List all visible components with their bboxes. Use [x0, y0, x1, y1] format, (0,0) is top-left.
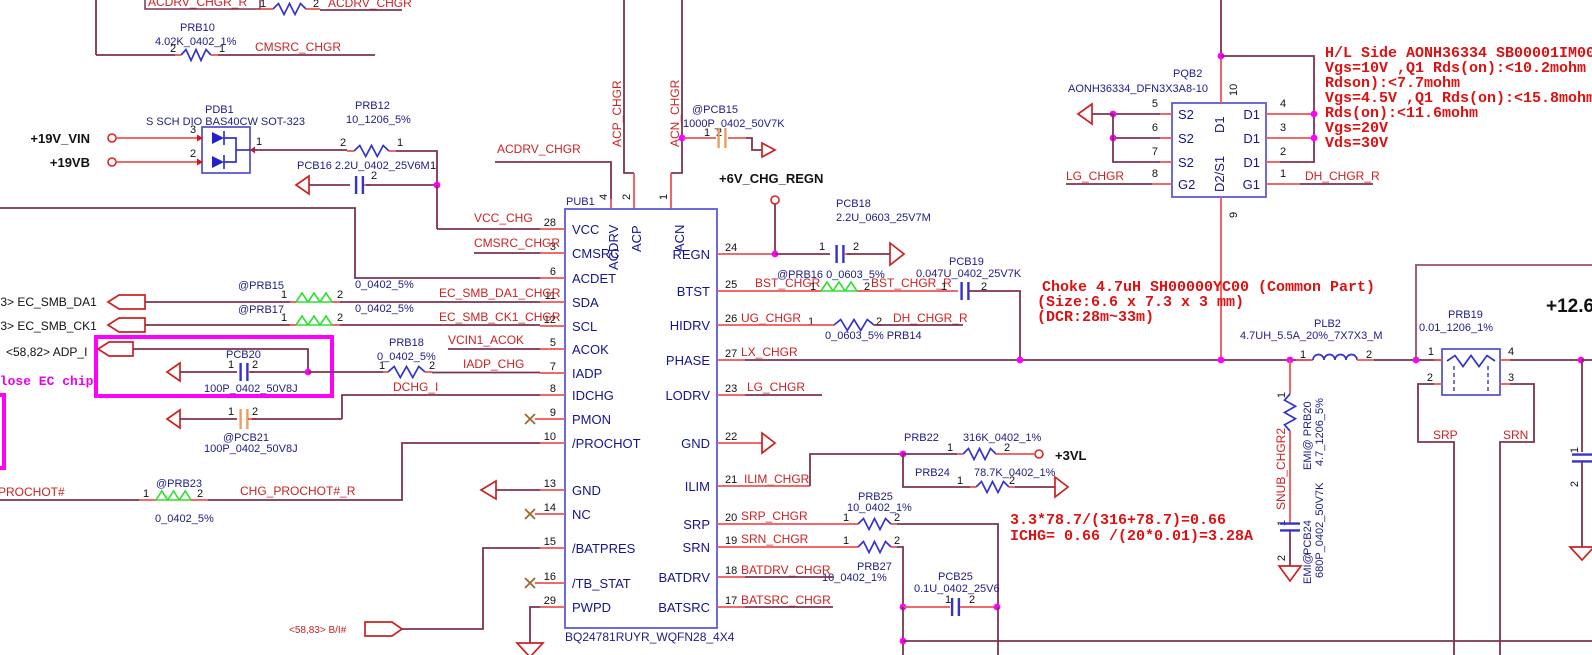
net arrow REGN out [890, 243, 904, 265]
resistor PRB12 pin 1 [397, 137, 403, 149]
svg-text:1: 1 [281, 289, 287, 301]
svg-text:ACN: ACN [672, 225, 687, 252]
connector circle +3VL [1035, 450, 1043, 458]
svg-text:DH_CHGR_R: DH_CHGR_R [893, 311, 968, 325]
svg-text:S2: S2 [1178, 155, 1194, 170]
no-connect X on /TB_STAT pin 16 [525, 578, 540, 588]
svg-text:close EC chip: close EC chip [0, 374, 94, 389]
capacitor PCB24 labels vertical [1302, 482, 1326, 584]
svg-text:PRB18: PRB18 [389, 337, 424, 349]
no-connect X on NC pin 14 [525, 509, 540, 519]
junction pin 4 node [1311, 111, 1318, 118]
wire PQB2 pin 4 [1266, 113, 1314, 115]
svg-text:2: 2 [252, 359, 258, 371]
chip PUB1 refdes [566, 196, 595, 208]
capacitor PCB20 [180, 363, 254, 381]
svg-text:GND: GND [572, 483, 601, 498]
svg-text:3: 3 [1280, 122, 1286, 134]
svg-text:PRB24: PRB24 [915, 467, 950, 479]
svg-text:BATDRV_CHGR: BATDRV_CHGR [741, 563, 831, 577]
net label CMSRC_CHGR [474, 236, 560, 250]
diode PDB1 pin 1 [256, 136, 262, 148]
wire HIDRV to PRB14 [717, 324, 834, 326]
capacitor PCB20 value [204, 383, 298, 395]
svg-text:1: 1 [843, 535, 849, 547]
resistor @PRB15 pins [281, 289, 343, 301]
wire drain top to pins 4/3/2 [1221, 56, 1314, 162]
svg-text:BQ24781RUYR_WQFN28_4X4: BQ24781RUYR_WQFN28_4X4 [565, 630, 735, 644]
svg-text:2: 2 [969, 594, 975, 606]
svg-text:SRN: SRN [683, 540, 710, 555]
inductor PLB2 pins [1300, 349, 1372, 361]
port EC_SMB_DA1 [0, 295, 145, 309]
resistor PRB10 labels [155, 22, 237, 48]
svg-text:PCB19: PCB19 [949, 256, 984, 268]
wire ILIM_CHGR [717, 454, 903, 486]
svg-text:SRP: SRP [1433, 428, 1458, 442]
chip PUB1 top pin names [606, 224, 687, 270]
svg-text:EC_SMB_CK1_CHGR: EC_SMB_CK1_CHGR [439, 310, 561, 324]
svg-text:23: 23 [725, 383, 737, 395]
resistor PRB24 labels [915, 467, 1056, 479]
resistor PRB12 [347, 146, 396, 157]
resistor PRB18 [383, 367, 432, 378]
svg-text:LX_CHGR: LX_CHGR [741, 345, 798, 359]
ground symbol snubber [1279, 566, 1301, 581]
resistor @PRB23 [139, 491, 208, 500]
svg-text:D1: D1 [1243, 107, 1260, 122]
wire PCB16 to junction [366, 184, 437, 186]
svg-text:9: 9 [550, 407, 556, 419]
wire arrow to PCB16 [309, 184, 350, 186]
svg-text:LG_CHGR: LG_CHGR [1066, 169, 1124, 183]
net label LX_CHGR [741, 345, 798, 359]
transistor PQB2 right pin names [1243, 107, 1260, 192]
capacitor output [1572, 455, 1592, 462]
net label ACN_CHGR vertical [668, 79, 682, 147]
capacitor @PCB21 pins [228, 406, 258, 418]
svg-text:PCB16 2.2U_0402_25V6M: PCB16 2.2U_0402_25V6M [297, 160, 430, 172]
svg-text:PRB19: PRB19 [1448, 309, 1483, 321]
net label PROCHOT# [0, 485, 65, 499]
svg-text:/TB_STAT: /TB_STAT [572, 576, 631, 591]
svg-text:7: 7 [550, 361, 556, 373]
wire ADP_I [133, 349, 308, 372]
highlight box close EC chip [96, 337, 332, 396]
resistor @PRB16 [815, 282, 863, 291]
svg-text:2: 2 [313, 0, 319, 10]
capacitor PCB25 labels [914, 571, 1000, 595]
resistor pin 2 [313, 0, 319, 10]
svg-text:22: 22 [725, 431, 737, 443]
wire rail to right edge [1581, 359, 1592, 361]
wire GND pin 13 [496, 489, 540, 491]
svg-text:18: 18 [725, 565, 737, 577]
capacitor PCB24 [1280, 524, 1300, 531]
junction SRP/PCB25 [994, 604, 1001, 611]
svg-text:PRB10: PRB10 [180, 22, 215, 34]
net label SRN_CHGR [741, 532, 809, 546]
svg-text:CMSRC_CHGR: CMSRC_CHGR [474, 236, 560, 250]
svg-text:3.3*78.7/(316+78.7)=0.66: 3.3*78.7/(316+78.7)=0.66 [1010, 512, 1226, 529]
wire PQB2 pin 10 top [1220, 0, 1222, 103]
resistor PRB22 pins [947, 442, 1010, 454]
svg-text:1: 1 [379, 360, 385, 372]
svg-text:6: 6 [1152, 122, 1158, 134]
svg-text:1: 1 [256, 136, 262, 148]
resistor PRB19 labels [1419, 309, 1493, 334]
transistor PQB2 right pin numbers [1280, 98, 1286, 180]
no-connect X on PMON pin 9 [525, 414, 540, 424]
svg-text:10_0402_1%: 10_0402_1% [822, 572, 887, 584]
transistor PQB2 body [1172, 103, 1266, 197]
junction pin 6 node [1110, 135, 1117, 142]
transistor PQB2 pin 9 number [1228, 212, 1240, 218]
wire LODRV [717, 394, 822, 396]
capacitor PCB18 [837, 245, 851, 263]
svg-text:@PCB15: @PCB15 [692, 104, 738, 116]
svg-text:25: 25 [725, 279, 737, 291]
svg-text:ACP_CHGR: ACP_CHGR [610, 80, 624, 147]
svg-text:4: 4 [598, 194, 610, 200]
svg-text:/PROCHOT: /PROCHOT [572, 436, 641, 451]
net label SRP_CHGR [741, 509, 808, 523]
capacitor PCB16 [356, 176, 371, 194]
diode PDB1 labels [146, 104, 305, 128]
svg-text:@PRB16 0_0603_5%: @PRB16 0_0603_5% [777, 269, 885, 281]
wire ACP_CHGR [624, 0, 634, 209]
svg-text:17: 17 [725, 595, 737, 607]
svg-text:SRP: SRP [683, 517, 710, 532]
svg-text:DCHG_I: DCHG_I [393, 380, 438, 394]
resistor PRB27 pins [843, 535, 900, 547]
resistor PRB18 pins [379, 360, 435, 372]
wire PDB1 to PRB12 [250, 149, 347, 151]
svg-text:2: 2 [1276, 555, 1288, 561]
resistor PRB14 label [825, 330, 922, 342]
svg-text:0_0402_5%: 0_0402_5% [377, 351, 436, 363]
svg-text:PWPD: PWPD [572, 600, 611, 615]
capacitor output pin 2 [1569, 481, 1581, 487]
net arrow PCB20 left [167, 363, 180, 381]
svg-text:SCL: SCL [572, 319, 597, 334]
net label SRN (sense) [1503, 428, 1528, 442]
svg-text:680P_0402_50V7K: 680P_0402_50V7K [1314, 482, 1326, 578]
svg-text:6: 6 [550, 266, 556, 278]
resistor @PRB15 [145, 293, 340, 302]
svg-text:D2/S1: D2/S1 [1212, 156, 1227, 192]
resistor PRB20 labels vertical [1302, 398, 1326, 470]
svg-text:0.01_1206_1%: 0.01_1206_1% [1419, 322, 1493, 334]
junction PQB2 drain top [1218, 53, 1225, 60]
net arrow PCB21 left [167, 410, 180, 428]
annotation ICHG formula [1010, 512, 1253, 545]
resistor PRB10 pin 2 [170, 43, 176, 55]
resistor PRB27 [852, 542, 897, 553]
wire PRB24 to arrow [1015, 486, 1055, 488]
svg-text:ACP: ACP [629, 225, 644, 252]
svg-text:0.047U_0402_25V7K: 0.047U_0402_25V7K [916, 268, 1022, 280]
svg-text:@PRB23: @PRB23 [156, 478, 202, 490]
svg-text:2: 2 [876, 316, 882, 328]
svg-text:1: 1 [843, 512, 849, 524]
transistor PQB2 left pin names [1178, 107, 1195, 192]
diode PDB1 body [197, 127, 250, 173]
svg-text:S SCH DIO BAS40CW SOT-323: S SCH DIO BAS40CW SOT-323 [146, 116, 305, 128]
svg-text:PDB1: PDB1 [205, 104, 234, 116]
net label DH_CHGR_R (PQB2) [1305, 169, 1380, 183]
resistor (ACDRV_CHGR series) pin 1 [260, 0, 266, 10]
svg-text:UG_CHGR: UG_CHGR [741, 311, 801, 325]
net label CHG_PROCHOT#_R [240, 484, 356, 498]
capacitor @PCB15 labels [683, 104, 785, 130]
svg-text:S2: S2 [1178, 131, 1194, 146]
resistor PRB24 [970, 482, 1015, 493]
wire PCB19 to LX rail [969, 291, 1020, 360]
svg-text:BATDRV: BATDRV [658, 570, 710, 585]
svg-text:+12.6V: +12.6V [1546, 296, 1592, 317]
diode PDB1 pin 2 [190, 148, 196, 160]
transistor PQB2 refdes [1068, 68, 1208, 95]
resistor PRB18 labels [377, 337, 436, 363]
svg-text:PROCHOT#: PROCHOT# [0, 485, 65, 499]
svg-text:LODRV: LODRV [665, 388, 710, 403]
svg-text:14: 14 [544, 502, 556, 514]
resistor @PRB15 labels [238, 279, 414, 292]
svg-text:PUB1: PUB1 [566, 196, 595, 208]
svg-text:1: 1 [819, 241, 825, 253]
wire PCB21 to DCHG_I [252, 411, 342, 419]
net label ACP_CHGR vertical [610, 80, 624, 147]
svg-text:0_0402_5%: 0_0402_5% [155, 513, 214, 525]
inductor PLB2 labels [1240, 318, 1382, 342]
capacitor @PCB15 [684, 128, 746, 148]
wire CMSRC_CHGR top-left vertical [95, 0, 97, 55]
capacitor PCB25 [903, 598, 997, 616]
svg-text:1: 1 [808, 316, 814, 328]
wire PWPD to ground [530, 607, 540, 643]
svg-text:19: 19 [725, 535, 737, 547]
resistor (ACDRV_CHGR series) [260, 4, 320, 15]
svg-text:Vds=30V: Vds=30V [1325, 135, 1388, 152]
net arrow PQB2 source [1078, 104, 1092, 124]
svg-text:+3VL: +3VL [1055, 448, 1086, 463]
wire arrow to pin5 [1092, 113, 1113, 115]
wire output to cap [1581, 360, 1583, 452]
net label BATDRV_CHGR [741, 563, 831, 577]
svg-text:9: 9 [1228, 212, 1240, 218]
resistor PRB12 pin 2 [340, 137, 346, 149]
svg-text:0_0402_5%: 0_0402_5% [355, 279, 414, 291]
chip PUB1 left pin numbers [544, 217, 556, 607]
capacitor PCB16 pin 2 [371, 170, 377, 182]
net label UG_CHGR [741, 311, 814, 328]
wire BATDRV [717, 576, 833, 578]
wire BATSRC [717, 606, 833, 608]
svg-text:ILIM: ILIM [685, 479, 710, 494]
connector circle +6V_CHG_REGN [771, 196, 779, 204]
net label ACDRV_CHGR (near chip) [497, 142, 581, 156]
svg-text:1: 1 [228, 359, 234, 371]
wire REGN red stub [717, 253, 775, 255]
junction pin 9 to rail [1218, 357, 1225, 364]
svg-text:100P_0402_50V8J: 100P_0402_50V8J [204, 383, 298, 395]
resistor @PRB23 pins [143, 488, 203, 500]
svg-text:@PRB17: @PRB17 [238, 304, 284, 316]
capacitor PCB19 labels [916, 256, 1022, 280]
svg-text:1: 1 [1569, 447, 1581, 453]
port EC_SMB_CK1 [0, 318, 145, 333]
svg-text:S2: S2 [1178, 107, 1194, 122]
svg-text:2: 2 [1427, 372, 1433, 384]
svg-text:27: 27 [725, 348, 737, 360]
svg-text:1: 1 [658, 194, 670, 200]
svg-text:21: 21 [725, 474, 737, 486]
svg-text:1: 1 [1428, 346, 1434, 358]
svg-text:VCC: VCC [572, 222, 599, 237]
chip PUB1 part number [565, 630, 735, 644]
net label BATSRC_CHGR [741, 593, 831, 607]
svg-text:1: 1 [945, 594, 951, 606]
wire PRB27 to SRN sense [897, 547, 903, 607]
capacitor @PCB21 labels [204, 432, 298, 455]
junction ILIM node [900, 451, 907, 458]
svg-text:EMI@: EMI@ [1302, 553, 1314, 584]
wire DCHG_I (IDCHG pin 8) [342, 395, 540, 411]
svg-text:/BATPRES: /BATPRES [572, 541, 636, 556]
resistor @PRB16 label [777, 269, 885, 281]
wire VCC_CHG [437, 228, 540, 230]
wire +6V to REGN junction [774, 204, 776, 254]
svg-text:DH_CHGR_R: DH_CHGR_R [1305, 169, 1380, 183]
svg-text:ACDRV: ACDRV [606, 224, 621, 270]
resistor PRB27 label [822, 561, 892, 584]
net arrow ACN_CHGR out [762, 143, 775, 157]
net arrow GND pin 13 [481, 481, 496, 499]
svg-text:8: 8 [1152, 168, 1158, 180]
svg-text:2.2U_0603_25V7M: 2.2U_0603_25V7M [836, 212, 931, 224]
net label +12.6V [1546, 296, 1592, 317]
wire LX_CHGR rail [717, 359, 1311, 361]
wire DH_CHGR_R pin 1 [1266, 183, 1373, 185]
svg-text:2: 2 [340, 137, 346, 149]
wire PLB2 to PRB19 [1374, 359, 1442, 361]
wire LG_CHGR to pin 8 [1066, 183, 1172, 185]
svg-text:5: 5 [550, 337, 556, 349]
net label DCHG_I [393, 380, 438, 394]
svg-text:CHG_PROCHOT#_R: CHG_PROCHOT#_R [240, 484, 356, 498]
resistor @PRB17 [145, 316, 340, 325]
wire to PRB10 [96, 54, 175, 56]
net label EC_SMB_DA1_CHGR [439, 286, 561, 300]
svg-text:(DCR:28m~33m): (DCR:28m~33m) [1037, 309, 1154, 326]
resistor @PRB23 label [156, 478, 202, 490]
wire junction down to VCC corner [436, 185, 438, 229]
svg-text:BATSRC_CHGR: BATSRC_CHGR [741, 593, 831, 607]
wire PQB2 pin 5 [1113, 113, 1172, 115]
svg-text:SRN_CHGR: SRN_CHGR [741, 532, 809, 546]
wire CMSRC_CHGR [474, 252, 540, 254]
annotation close EC chip [0, 374, 94, 389]
resistor @PRB17 labels [238, 303, 414, 316]
svg-text:26: 26 [725, 313, 737, 325]
off-page box ACDRV_CHGR_R [145, 0, 260, 9]
junction VCC_CHG node [434, 182, 441, 189]
resistor PRB10 pin 1 [219, 43, 225, 55]
svg-text:+19V_VIN: +19V_VIN [30, 131, 90, 146]
svg-text:IADP: IADP [572, 366, 602, 381]
svg-text:2: 2 [429, 360, 435, 372]
svg-text:15: 15 [544, 536, 556, 548]
svg-text:IDCHG: IDCHG [572, 388, 614, 403]
svg-text:10_0402_1%: 10_0402_1% [847, 502, 912, 514]
svg-text:2: 2 [1280, 146, 1286, 158]
svg-text:0.1U_0402_25V6: 0.1U_0402_25V6 [914, 583, 1000, 595]
net arrow GND pin 22 [762, 433, 775, 453]
transistor PQB2 pin 10 number [1228, 84, 1240, 96]
svg-text:2: 2 [337, 312, 343, 324]
svg-text:BATSRC: BATSRC [658, 600, 710, 615]
junction pin 5 node [1110, 111, 1117, 118]
net label BST_CHGR [755, 276, 821, 293]
chip PUB1 top pin numbers [598, 194, 670, 200]
svg-text:2: 2 [1009, 475, 1015, 487]
svg-text:<58,83> EC_SMB_DA1: <58,83> EC_SMB_DA1 [0, 295, 97, 309]
wire BTST to PRB16 [717, 290, 815, 292]
svg-text:13: 13 [544, 478, 556, 490]
net label IADP_CHG [463, 357, 524, 371]
wire PQB2 pin 6 [1113, 137, 1172, 139]
svg-text:4: 4 [1508, 346, 1514, 358]
capacitor PCB24 pin 2 [1276, 555, 1288, 561]
svg-text:7: 7 [1152, 146, 1158, 158]
resistor EMI@ PRB20 [1285, 394, 1296, 431]
wire IADP_CHG [432, 372, 540, 374]
net label +3VL [1055, 448, 1086, 463]
svg-text:+19VB: +19VB [50, 155, 90, 170]
wire PRB20 to PCB24 [1289, 431, 1291, 523]
svg-text:<58,82> ADP_I: <58,82> ADP_I [6, 345, 87, 359]
capacitor @PCB21 [180, 409, 256, 429]
svg-text:3: 3 [190, 124, 196, 136]
wire SRN to PRB27 [717, 546, 852, 548]
wire SRP to PRB25 [717, 523, 852, 525]
svg-text:EC_SMB_DA1_CHGR: EC_SMB_DA1_CHGR [439, 286, 561, 300]
junction ACN/PCB15 [679, 135, 686, 142]
svg-text:SNUB_CHGR2: SNUB_CHGR2 [1274, 428, 1288, 510]
svg-text:PLB2: PLB2 [1314, 318, 1341, 330]
svg-text:10_1206_5%: 10_1206_5% [346, 114, 411, 126]
svg-text:1: 1 [947, 442, 953, 454]
svg-text:PCB25: PCB25 [938, 571, 973, 583]
wire ACDET [0, 208, 540, 278]
capacitor @PCB15 pins [704, 127, 722, 139]
wire PCB18 to arrow [847, 253, 890, 255]
wire PQB2 pin 3 [1266, 137, 1314, 139]
svg-text:2: 2 [853, 241, 859, 253]
wire PRB12 to corner [396, 151, 437, 185]
wire PRB19 pin4 [1500, 359, 1581, 361]
svg-text:ACDRV_CHGR_R: ACDRV_CHGR_R [148, 0, 247, 9]
transistor PQB2 left pin numbers [1152, 98, 1158, 180]
svg-text:SRP_CHGR: SRP_CHGR [741, 509, 808, 523]
svg-text:G2: G2 [1178, 177, 1195, 192]
svg-text:5: 5 [1152, 98, 1158, 110]
svg-text:0_0603_5% PRB14: 0_0603_5% PRB14 [825, 330, 922, 342]
svg-text:0_0402_5%: 0_0402_5% [355, 303, 414, 315]
wire ACDRV_CHGR top [320, 9, 402, 11]
capacitor PCB19 [962, 281, 988, 300]
